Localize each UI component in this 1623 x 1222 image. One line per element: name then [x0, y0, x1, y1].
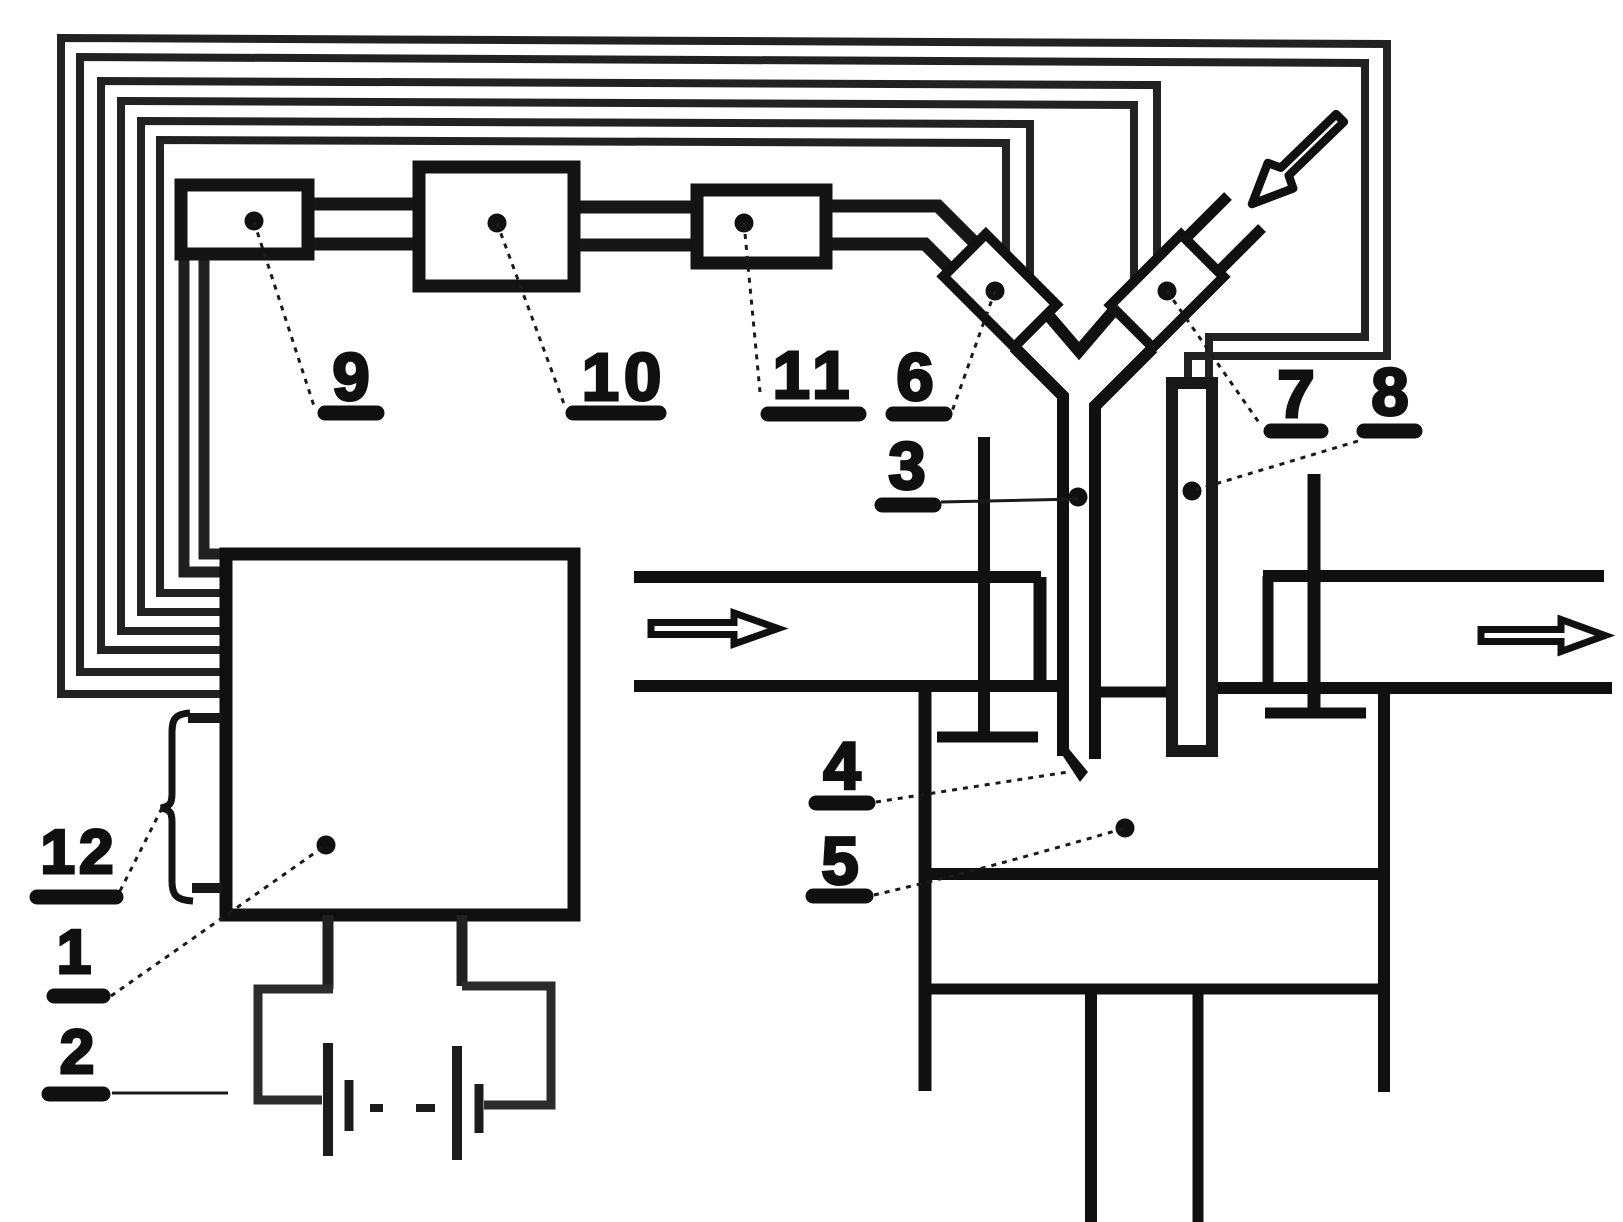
- label 5: [813, 824, 866, 899]
- leader dot on valve 6: [986, 282, 1005, 301]
- sensor box 9: [181, 185, 308, 254]
- leader line to label 4: [876, 772, 1068, 802]
- piston rod left line: [1085, 994, 1097, 1222]
- battery 2 left hook wire: [258, 989, 333, 1100]
- svg-text:11: 11: [773, 338, 856, 413]
- wire loop L1 (outermost harness loop from ECU 1 to sensor 8): [61, 38, 1387, 694]
- label 8: [1364, 355, 1415, 431]
- intake pipe lower wall right segment: [1218, 682, 1612, 694]
- intake valve port wall left: [1034, 577, 1047, 686]
- cylinder left wall: [919, 688, 932, 1091]
- leader dot in ECU 1: [317, 836, 336, 855]
- valve 6 (tilted box on left Y branch): [943, 234, 1056, 347]
- leader line to label 9: [254, 222, 314, 406]
- label 1: [54, 918, 103, 996]
- injector tube 3 right wall with Y branch to valve 7: [1095, 348, 1153, 759]
- sensor 8 (tall rectangle on cylinder head): [1172, 383, 1212, 751]
- injector nozzle tip 4: [1057, 747, 1088, 782]
- leader line to label 11: [744, 223, 760, 392]
- intake valve stem (left): [978, 437, 990, 733]
- air inflow arrow (hollow, left): [651, 613, 778, 644]
- label 2: [49, 1018, 103, 1094]
- ECU box 1: [226, 554, 574, 915]
- inlet tube wall into valve 7 (upper): [1186, 196, 1228, 238]
- Y junction inner vee of tube 3: [1043, 309, 1115, 351]
- label 4: [816, 729, 868, 804]
- leader dot on sensor 8: [1183, 482, 1202, 501]
- controller box 10: [419, 167, 574, 286]
- battery 2 right hook wire: [462, 986, 551, 1105]
- svg-text:5: 5: [821, 824, 858, 899]
- battery 2 middle dashes: [370, 1104, 435, 1112]
- piston rod right line: [1193, 994, 1204, 1222]
- svg-text:6: 6: [896, 340, 933, 415]
- curly brace 12: [161, 713, 193, 901]
- ECU stub wire lower (group 12): [192, 883, 222, 893]
- wire bus between box 10 and box 11: [576, 207, 695, 245]
- svg-text:1: 1: [57, 918, 91, 987]
- leader line to label 5: [874, 828, 1125, 895]
- svg-text:4: 4: [823, 729, 860, 804]
- svg-text:9: 9: [332, 340, 369, 415]
- leader line to label 12: [120, 808, 162, 891]
- intake valve port wall right: [1263, 576, 1274, 688]
- label 3: [882, 429, 934, 505]
- intake pipe lower wall middle segment: [1098, 687, 1168, 698]
- leader line to label 1: [111, 845, 326, 996]
- wire loop L2 (harness loop from ECU 1 to sensor 8): [80, 57, 1365, 672]
- label 7: [1271, 357, 1321, 432]
- svg-text:3: 3: [888, 429, 925, 504]
- wire loop L4 (harness loop from ECU 1 to valve 7): [121, 101, 1134, 631]
- label 12: [37, 818, 117, 897]
- wire loop L6 (innermost harness loop from ECU 1 to valve 6): [160, 140, 1006, 593]
- leader line to label 2: [112, 1092, 228, 1095]
- driver box 11: [697, 190, 826, 263]
- wire bus between box 9 and box 10: [310, 204, 417, 244]
- leader dot on piston 5: [1116, 819, 1135, 838]
- leader dot on box 11: [735, 214, 754, 233]
- leader line to label 8: [1192, 441, 1358, 491]
- battery 2 cell 2 short plate: [475, 1084, 484, 1133]
- intake pipe upper wall right segment: [1263, 570, 1604, 582]
- leader line to label 3: [941, 499, 1078, 502]
- piston 5 top land: [926, 868, 1381, 880]
- wire bus from box 11 to valve 6: [828, 206, 976, 271]
- exhaust valve head (right): [1265, 708, 1366, 719]
- svg-text:2: 2: [60, 1018, 94, 1087]
- outflow arrow (hollow, right): [1481, 620, 1605, 652]
- exhaust valve stem (right): [1308, 474, 1321, 710]
- leader line to label 10: [497, 223, 564, 404]
- ECU stub wire upper (group 12): [188, 713, 222, 723]
- wire loop L5 (harness loop from ECU 1 to valve 6): [141, 121, 1030, 612]
- intake valve head (left): [937, 732, 1038, 743]
- piston 5 bottom land: [926, 984, 1381, 995]
- label 10: [573, 340, 666, 415]
- battery 2 cell 1 short plate: [345, 1080, 354, 1131]
- svg-text:12: 12: [41, 818, 118, 887]
- inlet tube wall into valve 7 (lower): [1219, 228, 1262, 271]
- injector tube 3 left wall with Y branch to valve 6: [1014, 347, 1063, 756]
- wire from sensor box 9 to ECU 1 (outer): [184, 258, 226, 572]
- label 6: [893, 340, 945, 415]
- cylinder right wall: [1378, 688, 1390, 1092]
- battery 2 right feed wire from ECU 1: [457, 915, 468, 986]
- leader dot on valve 7: [1158, 282, 1177, 301]
- battery 2 left feed wire from ECU 1: [323, 915, 334, 989]
- svg-text:7: 7: [1277, 357, 1314, 432]
- leader line to label 6: [950, 291, 995, 417]
- wire loop L3 (harness loop from ECU 1 to valve 7): [101, 81, 1157, 650]
- fuel inlet arrow (hollow, top right): [1252, 114, 1344, 204]
- label 11: [768, 338, 859, 414]
- leader dot on box 10: [488, 214, 507, 233]
- battery 2 cell 2 long plate: [452, 1046, 462, 1160]
- leader dot on box 9: [245, 212, 264, 231]
- valve 7 (tilted box on right Y branch): [1110, 234, 1223, 347]
- label 9: [325, 340, 377, 415]
- intake pipe lower wall left segment: [634, 680, 1058, 692]
- svg-text:8: 8: [1371, 355, 1408, 430]
- wire from sensor box 9 to ECU 1 (inner): [204, 258, 226, 554]
- leader dot on tube 3: [1069, 488, 1088, 507]
- battery 2 cell 1 long plate: [323, 1043, 333, 1156]
- leader line to label 7: [1167, 291, 1260, 424]
- intake pipe upper wall left segment: [634, 571, 1041, 583]
- svg-text:10: 10: [582, 340, 667, 415]
